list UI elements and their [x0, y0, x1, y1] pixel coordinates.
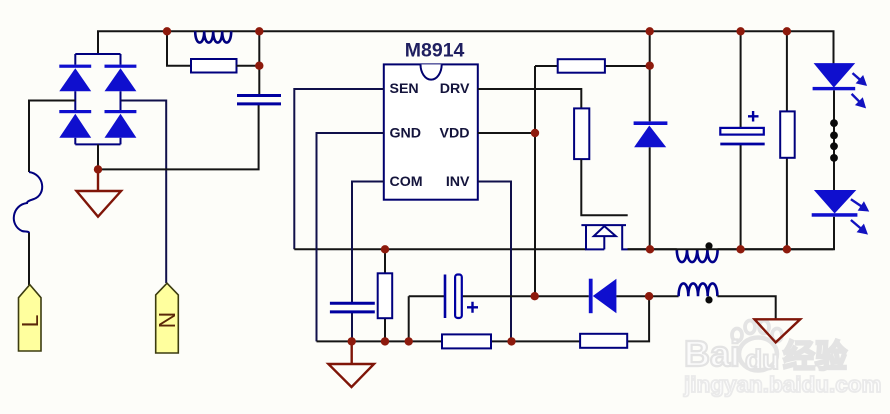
LED D8 [812, 190, 858, 217]
node: VDD pin junction [531, 129, 539, 137]
inductor L1 (EMI filter) [195, 31, 231, 42]
bridge diode D4 (lower-right) [105, 110, 137, 138]
resistor R1 [191, 59, 237, 73]
node: ground rail / sense resistor [381, 337, 389, 345]
wire: top rail from bridge top to LED string [98, 31, 834, 63]
bridge diode D2 (upper-right) [105, 65, 137, 92]
node: rail junction at EMI branch right [255, 27, 263, 35]
wire: fuse to L terminal [28, 233, 30, 285]
wire: DRV pin to gate resistor [478, 89, 582, 108]
wire: INV pin to ground rail [478, 182, 511, 342]
node: rail junction at EMI branch left [163, 27, 171, 35]
resistor R5 (bottom left) [442, 334, 491, 348]
svg-text:经验: 经验 [783, 338, 847, 374]
node: source rail / sense resistor [381, 245, 389, 253]
svg-text:Bai: Bai [684, 333, 740, 374]
wire: ground node to input cap bottom [98, 104, 259, 169]
node: R1 right lead [255, 61, 263, 69]
resistor R6 (bottom right) [580, 334, 627, 348]
resistor R3 (gate) [574, 108, 589, 159]
node: startup resistor right lead [646, 61, 654, 69]
wire: bridge right tap to N [121, 101, 167, 284]
LED D7 [813, 63, 856, 90]
wire: startup resistor branch [535, 65, 650, 67]
terminal N [156, 283, 179, 353]
wire: HV bus to freewheel diode [649, 31, 651, 249]
node: drain rail / freewheel diode [646, 245, 654, 253]
node dot (L2 polarity) [705, 242, 712, 249]
LED string wire [628, 90, 835, 249]
wire: COM pin down [352, 182, 384, 342]
diode D6 (VDD rectifier) [589, 279, 617, 314]
node: LED return / output resistor [783, 245, 791, 253]
node dots (more LEDs) [830, 119, 838, 127]
ground (signal) [328, 341, 374, 387]
watermark baidu jingyan [683, 321, 882, 398]
wire: R1 to node [237, 31, 260, 95]
capacitor C1 (input filter) [237, 96, 281, 104]
capacitor C2 (output) [740, 31, 742, 249]
svg-text:INV: INV [446, 174, 470, 190]
IC U1 M8914 [384, 64, 478, 199]
LED D7 arrows [852, 73, 866, 107]
node: LED return / output cap [736, 245, 744, 253]
ground (bridge return) [77, 169, 122, 216]
svg-text:L: L [17, 314, 43, 327]
node: ground rail / C3 lead [405, 337, 413, 345]
resistor R2 (sense) [384, 249, 386, 341]
bridge rectifier outline [75, 54, 120, 144]
terminal L [19, 285, 42, 351]
inductor L3 (aux winding) [679, 283, 718, 296]
inductor L2 (main winding) [677, 249, 718, 262]
node: rail junction at freewheel diode [646, 27, 654, 35]
node: bridge return / input cap [94, 165, 102, 173]
svg-text:VDD: VDD [440, 126, 470, 142]
wire: aux winding to ground [717, 296, 775, 319]
wire: C3 left lead to ground rail [408, 296, 410, 341]
svg-text:DRV: DRV [440, 81, 470, 97]
wire: VDD pin to supply line [478, 66, 535, 296]
wire: branch to R1 [167, 31, 191, 65]
node: ground rail / INV [507, 337, 515, 345]
svg-text:du: du [745, 344, 779, 375]
wire: sense rail (source side) [294, 248, 586, 250]
ground (aux) [755, 319, 801, 342]
svg-text:COM: COM [390, 174, 423, 190]
bridge diode D3 (lower-left) [59, 110, 91, 138]
wire: D6 anode to aux winding [616, 295, 678, 297]
wire: bridge bottom to ground node [97, 144, 99, 169]
node: aux winding / D6 anode [645, 292, 653, 300]
LED D8 arrows [851, 199, 867, 233]
bridge diode D1 (upper-left) [59, 65, 91, 92]
node: ground rail / C4 [348, 337, 356, 345]
svg-text:SEN: SEN [390, 81, 419, 97]
transistor Q1 (MOSFET) [581, 225, 627, 249]
resistor R4 (startup) [558, 59, 605, 72]
resistor R7 (output bleeder) [786, 31, 788, 249]
capacitor C3 (VDD, electrolytic) [445, 275, 478, 319]
diode D5 (freewheel) [634, 121, 668, 147]
wire: SEN pin to sense rail [294, 89, 384, 249]
svg-text:GND: GND [390, 126, 422, 142]
wire: ground rail [317, 296, 650, 341]
wire: drain rail to LED return [628, 248, 834, 250]
fuse F1 (squiggle) [14, 172, 42, 233]
wire: VDD supply line [409, 295, 589, 297]
wire: bridge left tap to L [29, 101, 75, 173]
wire: gate lead and gate plate [581, 159, 627, 215]
wire: GND pin down to ground rail [317, 133, 384, 341]
svg-text:N: N [154, 312, 180, 329]
svg-text:jingyan.baidu.com: jingyan.baidu.com [683, 372, 882, 397]
node: VDD supply line [531, 292, 539, 300]
node dot (L3 polarity) [705, 296, 712, 303]
node: rail junction at output cap [736, 27, 744, 35]
svg-text:M8914: M8914 [405, 40, 465, 62]
node: rail junction at output resistor [783, 27, 791, 35]
capacitor C4 (COM) [330, 303, 375, 312]
